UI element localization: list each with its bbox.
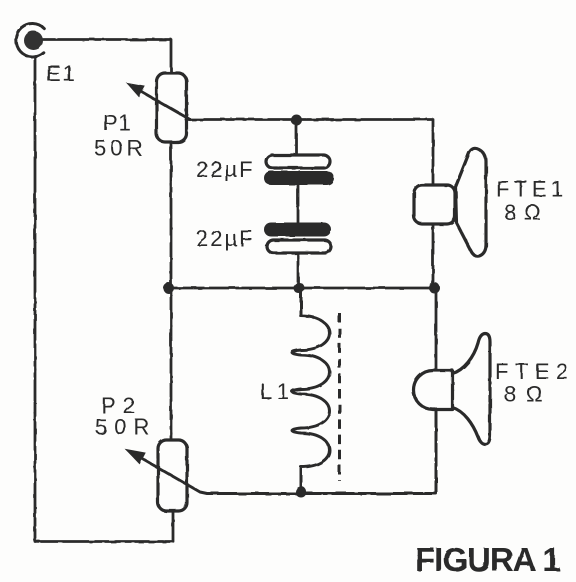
svg-text:22µF: 22µF [196,157,255,182]
svg-text:22µF: 22µF [196,226,255,251]
svg-text:E1: E1 [46,61,77,86]
svg-text:FIGURA 1: FIGURA 1 [415,541,560,578]
svg-text:50R: 50R [95,415,156,440]
svg-text:FTE1: FTE1 [496,177,568,202]
svg-text:FTE2: FTE2 [495,359,575,384]
svg-text:50R: 50R [94,136,146,161]
svg-text:8Ω: 8Ω [504,382,553,407]
svg-text:P1: P1 [103,111,132,136]
svg-text:8Ω: 8Ω [504,200,549,225]
svg-text:L1: L1 [260,379,293,404]
